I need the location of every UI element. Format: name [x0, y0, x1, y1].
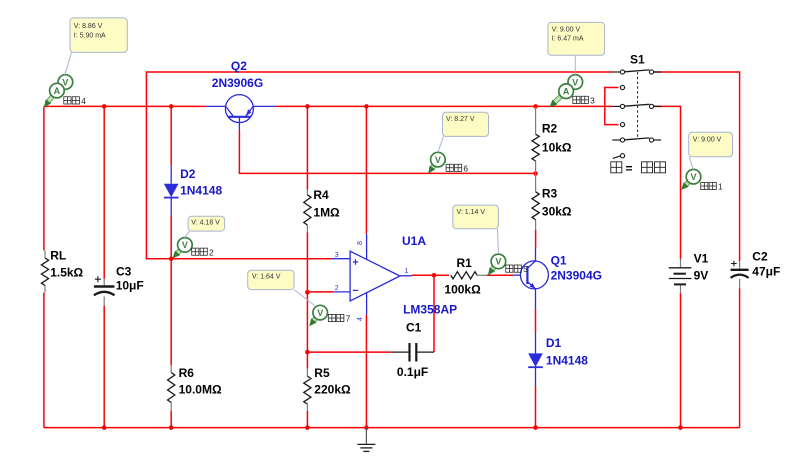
- svg-text:C2: C2: [752, 250, 768, 264]
- svg-text:10μF: 10μF: [116, 278, 144, 292]
- svg-text:R2: R2: [542, 122, 558, 136]
- svg-text:V: 9.00 V: V: 9.00 V: [693, 137, 722, 144]
- svg-text:2N3904G: 2N3904G: [551, 268, 602, 282]
- svg-text:LM358AP: LM358AP: [403, 303, 457, 317]
- svg-text:4: 4: [81, 96, 86, 106]
- svg-text:30kΩ: 30kΩ: [542, 205, 572, 219]
- svg-text:V: 9.00 V: V: 9.00 V: [552, 27, 581, 34]
- svg-text:1N4148: 1N4148: [546, 354, 588, 368]
- svg-text:V: V: [495, 257, 501, 267]
- svg-text:V: V: [690, 172, 696, 182]
- svg-text:S1: S1: [630, 52, 645, 66]
- svg-text:V: V: [572, 77, 578, 87]
- svg-text:R3: R3: [542, 186, 558, 200]
- svg-text:1N4148: 1N4148: [180, 184, 222, 198]
- svg-text:0.1μF: 0.1μF: [397, 365, 428, 379]
- svg-text:R6: R6: [179, 366, 195, 380]
- svg-text:=: =: [626, 161, 633, 175]
- svg-text:V: 8.27 V: V: 8.27 V: [446, 116, 475, 123]
- svg-text:3: 3: [590, 96, 595, 106]
- svg-text:V: V: [317, 308, 323, 318]
- svg-text:47μF: 47μF: [752, 264, 780, 278]
- svg-text:C1: C1: [406, 320, 422, 334]
- svg-text:1.5kΩ: 1.5kΩ: [50, 265, 83, 279]
- svg-text:V: 8.86 V: V: 8.86 V: [74, 23, 103, 30]
- svg-text:V1: V1: [694, 252, 709, 266]
- svg-text:1: 1: [718, 182, 723, 192]
- svg-text:2: 2: [209, 247, 214, 257]
- svg-text:5: 5: [523, 264, 528, 274]
- svg-text:3: 3: [335, 252, 339, 259]
- svg-text:RL: RL: [50, 249, 66, 263]
- svg-text:V: 1.64 V: V: 1.64 V: [252, 274, 281, 281]
- svg-text:R4: R4: [313, 188, 329, 202]
- svg-text:1: 1: [405, 268, 409, 275]
- svg-text:2: 2: [335, 285, 339, 292]
- svg-text:100kΩ: 100kΩ: [444, 282, 481, 296]
- svg-text:8: 8: [357, 241, 364, 245]
- svg-text:V: 4.18 V: V: 4.18 V: [191, 220, 220, 227]
- svg-text:2N3906G: 2N3906G: [212, 76, 263, 90]
- svg-text:V: V: [435, 155, 441, 165]
- svg-text:9V: 9V: [694, 269, 709, 283]
- svg-text:D1: D1: [546, 336, 562, 350]
- svg-text:Q1: Q1: [551, 253, 567, 267]
- svg-text:Q2: Q2: [231, 59, 247, 73]
- svg-text:220kΩ: 220kΩ: [314, 383, 351, 397]
- svg-text:1MΩ: 1MΩ: [313, 206, 340, 220]
- svg-text:A: A: [54, 86, 61, 96]
- svg-text:U1A: U1A: [402, 234, 426, 248]
- svg-text:7: 7: [346, 314, 351, 324]
- svg-text:D2: D2: [180, 167, 196, 181]
- svg-text:V: 1.14 V: V: 1.14 V: [457, 209, 486, 216]
- svg-text:6: 6: [463, 163, 468, 173]
- svg-text:R1: R1: [457, 256, 473, 270]
- svg-text:C3: C3: [116, 264, 132, 278]
- svg-text:10kΩ: 10kΩ: [542, 140, 572, 154]
- svg-text:I: 6.47 mA: I: 6.47 mA: [552, 36, 584, 43]
- svg-text:V: V: [182, 240, 188, 250]
- svg-text:A: A: [563, 87, 570, 97]
- svg-text:10.0MΩ: 10.0MΩ: [179, 383, 222, 397]
- svg-text:R5: R5: [314, 366, 330, 380]
- svg-text:I: 5.90 mA: I: 5.90 mA: [74, 32, 106, 39]
- svg-text:4: 4: [357, 317, 364, 321]
